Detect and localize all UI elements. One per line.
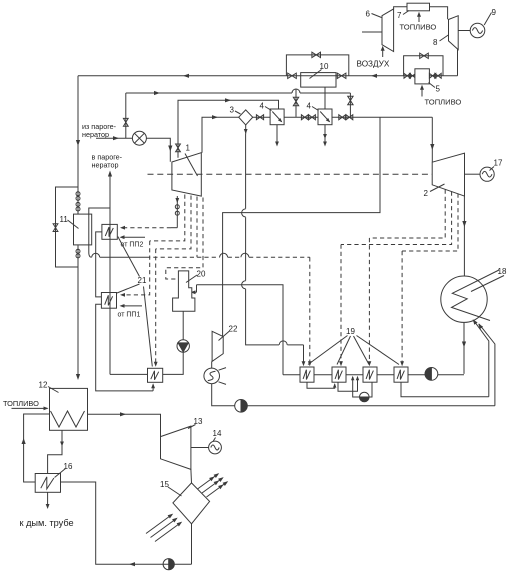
air heater 10: [301, 73, 336, 88]
svg-text:ВОЗДУХ: ВОЗДУХ: [357, 60, 390, 69]
flue to stack wire: [47, 492, 49, 507]
arrowhead air up: [22, 438, 26, 444]
wire turbine 8 exhaust down: [457, 50, 460, 76]
air arrow into compressor 6: [382, 48, 384, 58]
extraction dashed T1-3 to HX 21c: [156, 196, 191, 249]
svg-text:19: 19: [346, 327, 355, 336]
drain heater C via drain pump: [369, 382, 372, 397]
valve on HX11 bypass: [53, 224, 58, 228]
leader 21 to 21a: [118, 237, 140, 277]
separator 3: [239, 110, 253, 125]
leader 6: [372, 14, 382, 18]
boiler outlet wire to turbine 13: [88, 414, 161, 436]
drain arrow below 4a: [276, 125, 278, 145]
fuel arrow into boiler 12: [12, 407, 48, 409]
svg-text:нератор: нератор: [92, 161, 119, 170]
wire turbine 8 to generator 9: [458, 30, 470, 32]
svg-text:4: 4: [307, 102, 312, 111]
svg-text:21: 21: [138, 276, 147, 285]
heater D: [394, 367, 408, 382]
svg-text:нератор: нератор: [82, 130, 109, 139]
condensate cross line: [247, 405, 495, 407]
leader 19 to heater D: [357, 336, 400, 365]
svg-text:16: 16: [64, 462, 73, 471]
arrowhead on exhaust header (left flow): [183, 74, 189, 78]
turbine 1: [172, 153, 201, 196]
valve pair after converter 4b: [339, 115, 342, 120]
leader 20: [186, 275, 197, 283]
wire GT exhaust downcomer: [77, 76, 79, 214]
separator drain wire: [245, 134, 247, 209]
drain heater A to B: [307, 382, 335, 388]
svg-text:18: 18: [498, 267, 507, 276]
wire y93 riser with valve to mixer line: [125, 93, 127, 138]
valve on turbine1 inlet branch: [176, 144, 181, 148]
wire 21b left to 21c bottom: [96, 304, 153, 391]
leader 9: [484, 13, 491, 26]
left drain stub wire: [295, 89, 297, 117]
cooling water arrows into condenser: [473, 319, 478, 325]
leader 4b: [312, 107, 319, 111]
svg-text:9: 9: [492, 8, 497, 17]
label from PP1 with arrow: [122, 305, 143, 307]
mixer (injection cooler): [132, 131, 146, 145]
svg-text:11: 11: [60, 215, 69, 224]
svg-text:7: 7: [397, 11, 402, 20]
hop over turbine22 line: [220, 253, 228, 257]
deaerator 20: [173, 271, 195, 311]
hop separator drain over turbine22 branch: [242, 209, 246, 217]
wire deaerator to feed pump: [182, 311, 184, 340]
label from PP2 with arrow: [122, 236, 146, 238]
valve pair left of afterburner 5: [404, 73, 407, 78]
valve on left drain stub: [293, 97, 298, 101]
leader 8: [440, 35, 449, 41]
valve right of air heater 10: [337, 73, 341, 78]
leader 18 upper / condenser zigzag: [452, 270, 500, 321]
arrowhead return flow: [129, 562, 135, 566]
feed into deaerator arrow: [196, 285, 198, 293]
wire turbine 13 to generator 14: [191, 447, 209, 449]
afterburner combustion chamber 5: [415, 69, 430, 84]
wire y93 corner down to valve stub: [349, 93, 351, 117]
heat consumer 15: [173, 483, 210, 524]
turbine 8: [449, 16, 459, 50]
economizer 16: [35, 474, 60, 493]
leader 12: [48, 387, 59, 393]
hop separator drain over feed riser: [279, 341, 287, 345]
fuel arrow into afterburner 5: [421, 86, 423, 96]
svg-text:15: 15: [160, 480, 169, 489]
svg-text:14: 14: [213, 429, 222, 438]
leader 19 to heater C: [354, 336, 370, 365]
valve after separator: [256, 115, 260, 120]
air line into boiler: [24, 414, 50, 482]
arrowhead downcomer at bottom: [76, 374, 80, 380]
leader 2: [430, 184, 445, 192]
wire 21c to deaerator feed pump: [163, 352, 184, 374]
extraction dashed T2-3 to heater D: [402, 194, 458, 252]
extraction dashed T2-2 to heater B: [341, 192, 452, 245]
svg-text:20: 20: [197, 270, 206, 279]
heater C: [363, 367, 377, 382]
wire steam header y117: [253, 116, 270, 118]
svg-text:ТОПЛИВО: ТОПЛИВО: [425, 98, 462, 107]
leader 10: [310, 70, 322, 79]
valve on mixer riser: [123, 118, 128, 122]
aux condensate wire to pump: [212, 384, 235, 406]
svg-text:22: 22: [229, 325, 238, 334]
svg-text:6: 6: [366, 10, 371, 19]
valve on right drain stub: [348, 96, 353, 100]
generator 9: [470, 23, 485, 38]
svg-text:ТОПЛИВО: ТОПЛИВО: [400, 23, 437, 32]
leader 7: [403, 11, 409, 15]
boiler furnace 12: [50, 388, 88, 430]
arrowhead condensate down: [462, 342, 466, 348]
valve pair after converter 4a: [301, 115, 304, 120]
wire turbine 2 exhaust: [463, 196, 465, 276]
valve left of air heater 10: [288, 73, 292, 78]
hop over drain stub: [292, 89, 300, 93]
svg-text:к дым. трубе: к дым. трубе: [20, 518, 74, 528]
extraction dashed T1-5 to deaerator 20: [166, 198, 203, 280]
cooling water line inner: [474, 320, 489, 397]
aux condenser: [204, 368, 220, 384]
drain double arrow below 4b: [324, 125, 326, 145]
generator 14: [209, 441, 222, 454]
valve below HX 11: [76, 249, 80, 253]
heating water inlet arrows: [146, 515, 172, 534]
flue gas wire boiler to economizer 16: [48, 430, 62, 473]
svg-text:5: 5: [436, 85, 441, 94]
shaft dashed line: [148, 173, 433, 175]
separator drain arrow: [245, 125, 247, 134]
arrowhead to mixer: [113, 136, 119, 140]
compressor 6: [382, 9, 394, 52]
wire combustor 7 to turbine 8: [430, 7, 448, 19]
extraction dashed T2-1 to heater C: [369, 190, 445, 239]
arrowhead into turbine 2: [430, 144, 434, 150]
aux condensate pump: [235, 400, 248, 413]
wire mixer to turbine 1 inlet: [146, 138, 170, 162]
leader 22: [219, 331, 230, 341]
extraction dashed T1-2 to HX 21b: [150, 195, 185, 241]
HX 21b: [101, 293, 116, 309]
combustion chamber 7: [407, 3, 430, 11]
HX 21c: [148, 368, 163, 382]
branch to drive turbine 22: [226, 117, 380, 212]
condensate pump after condenser: [425, 368, 438, 381]
leader 17: [490, 167, 495, 171]
wire turbine 22 to aux condenser: [211, 361, 213, 368]
arrowhead exhaust down: [462, 221, 466, 227]
leader 1: [185, 154, 198, 177]
leader 21 to 21b: [117, 284, 140, 293]
wire turbine 2 to generator 17: [465, 173, 481, 175]
svg-text:17: 17: [494, 159, 503, 168]
hop separator drain over feed header: [242, 281, 246, 289]
steam converter 4b: [318, 109, 332, 125]
leader 4a: [265, 107, 272, 111]
wire 21a left to 21b left: [96, 232, 102, 297]
arrowhead feed to steam generator: [108, 171, 112, 177]
hop over separator drain: [241, 253, 249, 257]
svg-text:ТОПЛИВО: ТОПЛИВО: [3, 399, 39, 408]
leader 14: [213, 438, 216, 442]
wire heat consumer 15 outlet down: [191, 524, 193, 564]
arrowhead on y93 line: [154, 91, 160, 95]
water tube through HX 11: [89, 208, 110, 253]
valve pair right of afterburner 5: [429, 73, 432, 78]
svg-text:12: 12: [39, 381, 48, 390]
bypass wire over air heater 10: [286, 55, 348, 76]
valve on air heater bypass: [312, 52, 316, 57]
svg-text:8: 8: [433, 38, 438, 47]
svg-text:3: 3: [230, 106, 235, 115]
wire steam bypass line y93: [126, 92, 292, 94]
double valve above HX 11: [76, 192, 80, 196]
heater A: [300, 367, 314, 382]
bypass wire around HX 11: [56, 187, 79, 267]
svg-text:1: 1: [186, 144, 191, 153]
gas water heater 11: [74, 214, 92, 245]
leader 16: [55, 469, 66, 478]
wire from steam generator to mixer: [96, 137, 132, 139]
arrowhead on y100 line: [225, 98, 231, 102]
condenser 18: [441, 276, 487, 322]
wire compressor to combustor 7: [394, 7, 407, 9]
leader 5: [429, 83, 436, 88]
drain wire from HX 11: [89, 253, 92, 258]
feedwater header to deaerator: [197, 285, 284, 375]
cooling water line outer: [479, 324, 495, 406]
valve on afterburner bypass: [420, 53, 424, 58]
hop drain over 21a-21b wire: [92, 253, 100, 257]
heating water outlet arrows: [198, 474, 219, 489]
leader 15: [168, 487, 182, 496]
bypass wire over afterburner 5: [404, 56, 443, 76]
condensate outlet wire: [463, 322, 465, 374]
HX 21a: [102, 224, 117, 239]
drain heater B to line: [338, 377, 358, 391]
drain heater D to condenser: [401, 382, 489, 397]
drain header dashed to heater A: [146, 256, 220, 258]
steam converter 4a: [270, 109, 284, 125]
leader 13: [188, 425, 196, 429]
main condensate line: [283, 374, 300, 376]
drive turbine 22: [212, 331, 223, 361]
arrowhead downcomer at top: [76, 140, 80, 146]
svg-text:от ПП1: от ПП1: [118, 312, 141, 319]
wire turbine1 top to separator 3: [202, 117, 239, 153]
svg-text:2: 2: [424, 189, 429, 198]
extraction solid T1 to HX 21a: [176, 196, 178, 228]
fuel arrow into combustor 7: [418, 14, 420, 23]
leader 11: [68, 220, 79, 229]
feedwater riser to steam generator: [109, 176, 111, 374]
wire 21c left to feed riser: [110, 373, 148, 375]
arrowhead into turbine 1: [168, 146, 172, 152]
turbine 2: [432, 153, 464, 196]
arrowhead to separator: [212, 115, 218, 119]
leader 19 to heater A: [308, 336, 348, 365]
wire turbine1 branch y100: [178, 100, 279, 158]
heater B: [332, 367, 346, 382]
extraction dashed T1-4 joins drain header: [196, 197, 198, 258]
heating water return wire: [61, 482, 192, 564]
leader 18 lower: [471, 276, 504, 292]
generator 17: [480, 167, 494, 181]
wire turbine 13 to heat consumer 15: [190, 469, 193, 483]
return pump: [163, 559, 174, 570]
wire GT exhaust header: [78, 75, 415, 77]
wire air heater 10 to converter 4b: [324, 87, 326, 109]
leader 21 to 21c: [144, 287, 153, 367]
compressor 6 intake line: [362, 31, 382, 33]
feed pump: [177, 340, 189, 352]
turbine 13: [161, 426, 191, 469]
svg-text:4: 4: [260, 102, 265, 111]
leader 19 to heater B: [337, 336, 351, 365]
leader 3: [235, 111, 241, 114]
wire steam header down into turbine 2: [431, 117, 433, 162]
